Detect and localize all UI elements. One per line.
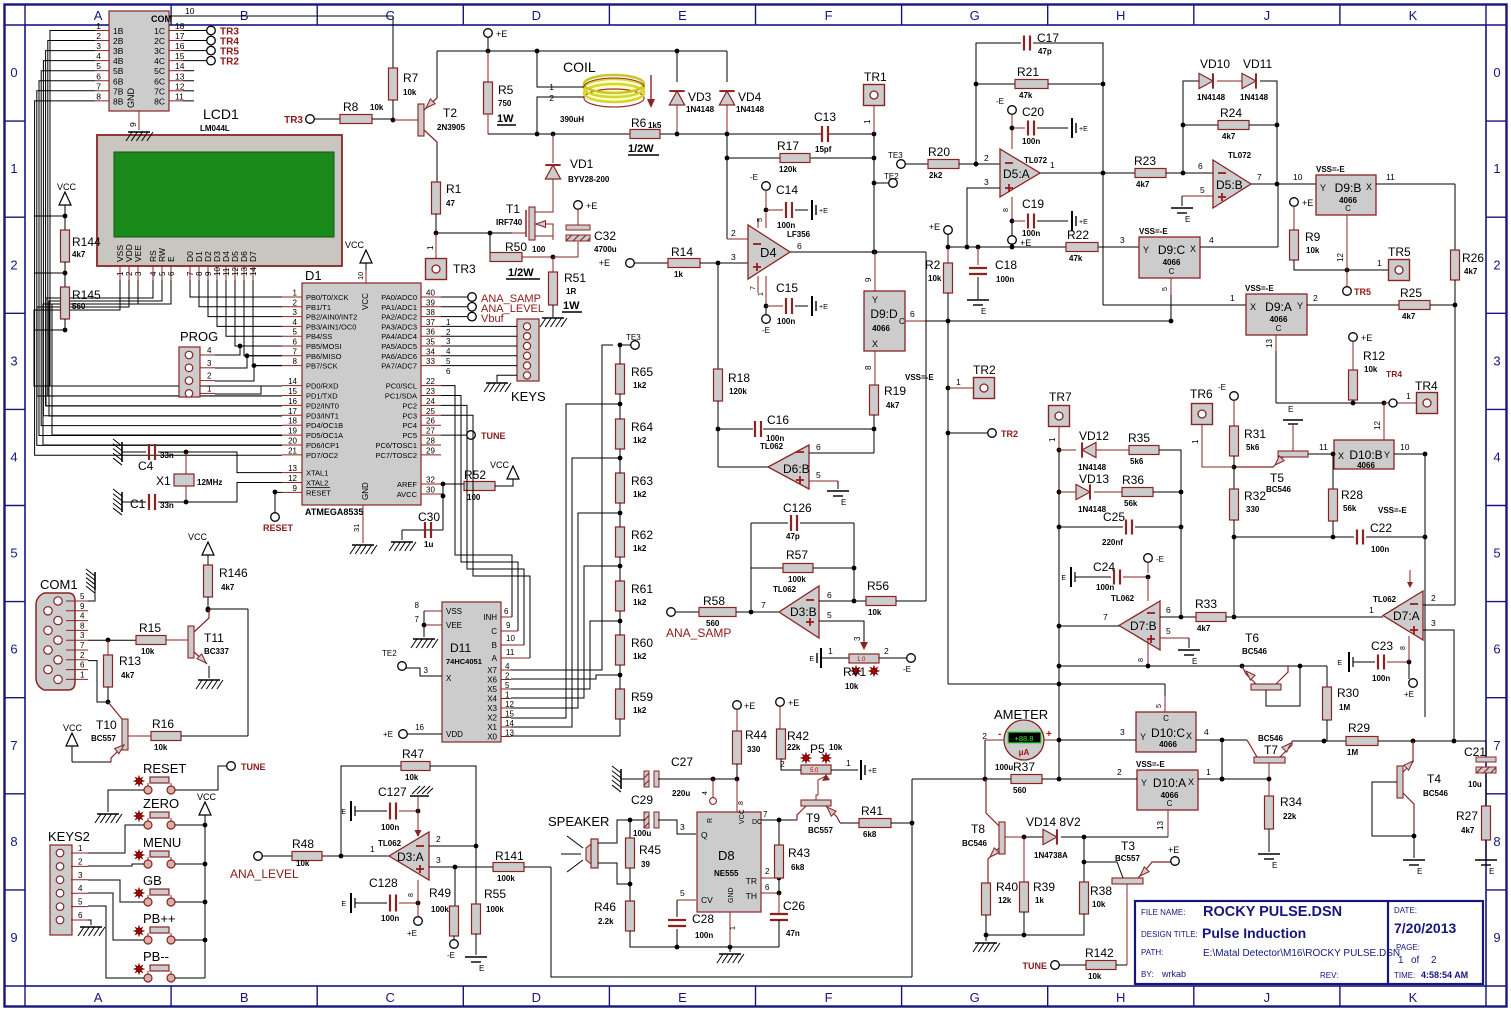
svg-text:TR2: TR2	[1001, 429, 1018, 439]
svg-text:PD3/INT1: PD3/INT1	[306, 411, 339, 420]
wire ladder top	[619, 345, 621, 364]
svg-text:4k7: 4k7	[1461, 826, 1475, 835]
svg-text:R15: R15	[139, 621, 161, 635]
svg-text:2: 2	[505, 672, 510, 681]
diode VD4 1N4148	[719, 91, 734, 105]
svg-text:VD12: VD12	[1079, 429, 1109, 443]
wire keys2 p5	[88, 906, 144, 978]
svg-text:R41: R41	[861, 804, 883, 818]
svg-text:1: 1	[370, 844, 375, 854]
op-amp D5:B TL072	[1213, 160, 1251, 208]
svg-text:E: E	[1489, 867, 1494, 876]
svg-text:D3:A: D3:A	[397, 850, 424, 864]
svg-text:E: E	[166, 256, 176, 262]
svg-text:C: C	[1169, 267, 1175, 276]
svg-text:2: 2	[765, 867, 770, 876]
svg-text:E:\Matal Detector\M16\ROCKY PU: E:\Matal Detector\M16\ROCKY PULSE.DSN	[1203, 948, 1400, 959]
svg-text:+E: +E	[383, 730, 393, 739]
wire T10 base	[128, 735, 151, 737]
svg-text:D8: D8	[718, 848, 735, 863]
svg-text:VDD: VDD	[446, 730, 463, 739]
svg-text:+: +	[1046, 729, 1052, 740]
svg-text:15: 15	[288, 387, 297, 396]
svg-text:C: C	[1276, 324, 1282, 333]
svg-text:Y: Y	[1320, 183, 1326, 193]
capacitor C13	[821, 126, 823, 142]
svg-text:23: 23	[426, 387, 435, 396]
svg-text:6k8: 6k8	[863, 830, 877, 839]
svg-text:R57: R57	[786, 548, 808, 562]
svg-text:R23: R23	[1134, 154, 1156, 168]
svg-text:VSS=-E: VSS=-E	[1378, 506, 1407, 515]
resistor R141	[455, 866, 493, 868]
wire D5A pin3	[967, 188, 1000, 247]
svg-text:10k: 10k	[1306, 246, 1320, 255]
capacitor C4	[121, 442, 123, 462]
svg-text:8: 8	[80, 621, 85, 630]
svg-text:10: 10	[356, 272, 365, 280]
diode VD3 1N4148	[669, 91, 684, 105]
svg-text:TR2: TR2	[973, 363, 996, 377]
svg-text:6: 6	[10, 642, 17, 657]
svg-text:INH: INH	[483, 613, 497, 622]
svg-text:100k: 100k	[431, 905, 449, 914]
svg-text:XTAL2: XTAL2	[306, 479, 328, 488]
wire R146 node	[207, 597, 209, 609]
svg-text:Q: Q	[701, 830, 708, 840]
svg-text:TIME:: TIME:	[1394, 971, 1415, 980]
IC D2 ULN2803	[109, 11, 169, 111]
svg-text:6: 6	[1198, 161, 1203, 171]
svg-text:1N4738A: 1N4738A	[1034, 851, 1068, 860]
resistor R17	[780, 154, 810, 163]
svg-text:+E: +E	[819, 304, 828, 311]
wire D7B pin7	[1059, 625, 1119, 627]
svg-text:22k: 22k	[787, 743, 801, 752]
svg-text:Y: Y	[872, 295, 878, 305]
svg-text:PB5/MOSI: PB5/MOSI	[306, 342, 341, 351]
resistor R64	[616, 419, 625, 449]
svg-text:2: 2	[10, 257, 17, 272]
svg-text:NE555: NE555	[714, 869, 739, 878]
svg-text:R49: R49	[429, 886, 451, 900]
svg-text:7: 7	[96, 81, 101, 91]
svg-text:TL072: TL072	[1024, 156, 1048, 165]
svg-text:9: 9	[204, 271, 213, 276]
svg-text:5C: 5C	[154, 66, 165, 76]
svg-text:R45: R45	[639, 843, 661, 857]
svg-text:2: 2	[125, 271, 134, 276]
capacitor C19	[1012, 220, 1025, 222]
wire T6 rail	[1059, 665, 1327, 667]
svg-text:C128: C128	[369, 876, 398, 890]
svg-text:Vbuf: Vbuf	[481, 313, 505, 325]
svg-text:40: 40	[426, 289, 435, 298]
IC D8 NE555	[697, 812, 761, 912]
svg-text:1/2W: 1/2W	[508, 267, 534, 279]
svg-text:10k: 10k	[405, 773, 419, 782]
svg-text:9: 9	[1493, 930, 1500, 945]
svg-text:3: 3	[78, 871, 83, 880]
wire D2COM down to R7	[392, 16, 394, 68]
svg-text:6: 6	[1493, 642, 1500, 657]
svg-text:18: 18	[288, 417, 297, 426]
svg-text:X0: X0	[487, 733, 497, 742]
svg-text:560: 560	[706, 619, 720, 628]
svg-text:9: 9	[10, 930, 17, 945]
svg-text:R20: R20	[928, 145, 950, 159]
svg-text:6: 6	[96, 71, 101, 81]
svg-text:5B: 5B	[113, 66, 124, 76]
svg-text:5: 5	[816, 470, 821, 480]
svg-text:R48: R48	[292, 837, 314, 851]
svg-text:1u: 1u	[424, 540, 433, 549]
svg-text:PC4: PC4	[402, 421, 417, 430]
svg-text:RESET: RESET	[143, 761, 186, 776]
wire D3A pin3	[429, 866, 455, 868]
transistor T10 BC557	[122, 719, 128, 750]
svg-text:E: E	[1185, 215, 1190, 224]
svg-text:10: 10	[506, 634, 515, 643]
wire D7A pin2	[1423, 604, 1454, 606]
resistor R16	[151, 732, 181, 741]
svg-text:C20: C20	[1022, 105, 1044, 119]
svg-text:10k: 10k	[868, 608, 882, 617]
terminal ANA_SAMP net	[468, 293, 477, 302]
svg-text:9: 9	[506, 621, 511, 630]
svg-text:4k7: 4k7	[221, 583, 235, 592]
wire R21 risers	[975, 84, 977, 164]
svg-text:R63: R63	[631, 474, 653, 488]
svg-text:VEE: VEE	[446, 621, 462, 630]
svg-text:TR7: TR7	[1049, 390, 1072, 404]
svg-text:R5: R5	[498, 83, 514, 97]
resistor R19	[870, 385, 879, 415]
diode VD14 8V2	[1024, 836, 1046, 838]
svg-text:TR: TR	[746, 876, 757, 886]
wire D7B pin5 gnd	[1160, 637, 1189, 639]
svg-text:T1: T1	[506, 202, 520, 216]
svg-text:120k: 120k	[729, 387, 747, 396]
svg-text:R24: R24	[1220, 106, 1242, 120]
svg-text:+E: +E	[744, 701, 755, 711]
svg-text:47k: 47k	[1069, 254, 1083, 263]
capacitor C1	[121, 492, 123, 512]
svg-text:4k7: 4k7	[1402, 312, 1416, 321]
svg-text:20: 20	[288, 437, 297, 446]
wire VD4 riser	[726, 51, 728, 82]
svg-text:ZERO: ZERO	[143, 796, 179, 811]
svg-text:R21: R21	[1017, 65, 1039, 79]
svg-text:5: 5	[1162, 287, 1169, 291]
svg-text:C: C	[899, 317, 905, 326]
svg-text:0: 0	[1493, 65, 1500, 80]
svg-text:5: 5	[505, 681, 510, 690]
svg-text:3: 3	[680, 822, 685, 832]
svg-text:D5:A: D5:A	[1003, 167, 1030, 181]
resistor R58	[699, 608, 736, 617]
power +E D5A	[1011, 221, 1013, 235]
svg-text:TUNE: TUNE	[241, 762, 266, 772]
svg-text:C32: C32	[594, 229, 616, 243]
svg-text:X: X	[1366, 182, 1372, 192]
svg-text:-E: -E	[762, 326, 770, 335]
svg-text:D10:C: D10:C	[1151, 726, 1185, 740]
svg-text:100n: 100n	[1022, 137, 1040, 146]
svg-text:5: 5	[757, 218, 764, 222]
svg-text:8: 8	[408, 893, 415, 897]
resistor R13	[107, 640, 109, 655]
resistor R18	[717, 263, 719, 369]
svg-text:Y: Y	[1141, 778, 1147, 788]
svg-text:7: 7	[10, 738, 17, 753]
svg-text:+E: +E	[599, 258, 610, 268]
svg-text:7C: 7C	[154, 86, 165, 96]
wire D7A pin3	[1423, 630, 1454, 741]
wire C22 line	[1234, 536, 1354, 538]
svg-text:5: 5	[78, 898, 83, 907]
svg-text:X5: X5	[487, 685, 497, 694]
svg-text:11: 11	[175, 91, 184, 101]
wire D3A pin8	[417, 880, 419, 917]
wire keys2 p2	[88, 864, 144, 866]
svg-text:2N3905: 2N3905	[437, 123, 466, 132]
svg-text:-E: -E	[1156, 555, 1164, 564]
resistor R24	[1183, 124, 1218, 126]
svg-text:X: X	[1190, 244, 1196, 254]
svg-text:12k: 12k	[998, 896, 1012, 905]
svg-text:1M: 1M	[1347, 748, 1358, 757]
svg-text:47p: 47p	[1038, 47, 1052, 56]
ground C127 hatch	[417, 797, 419, 811]
svg-text:31: 31	[352, 524, 361, 532]
wire D9A pin13	[1275, 335, 1277, 351]
svg-text:E: E	[1192, 657, 1197, 666]
svg-text:VD3: VD3	[688, 90, 712, 104]
svg-text:KEYS2: KEYS2	[48, 829, 90, 844]
svg-text:TR4: TR4	[1415, 379, 1438, 393]
svg-text:7: 7	[761, 600, 766, 610]
svg-text:+E: +E	[1404, 690, 1414, 699]
svg-text:10k: 10k	[928, 274, 942, 283]
svg-text:TUNE: TUNE	[1023, 961, 1048, 971]
wire keys2 p6	[88, 920, 91, 925]
svg-text:3: 3	[134, 271, 143, 276]
wire TR1 vertical	[873, 134, 875, 183]
svg-text:FILE NAME:: FILE NAME:	[1141, 908, 1185, 917]
svg-text:PROG: PROG	[180, 329, 218, 344]
svg-text:F: F	[825, 8, 833, 23]
wire KEYS p4	[441, 355, 517, 357]
svg-text:PB7/SCK: PB7/SCK	[306, 362, 338, 371]
svg-text:100n: 100n	[695, 931, 713, 940]
svg-text:4k7: 4k7	[1197, 624, 1211, 633]
wire D5A out	[1040, 172, 1103, 174]
ground R51	[552, 305, 554, 317]
svg-text:COM1: COM1	[40, 577, 78, 592]
svg-text:+E: +E	[868, 768, 877, 775]
resistor R29	[1346, 737, 1378, 746]
svg-text:X: X	[1188, 777, 1194, 787]
svg-text:12MHz: 12MHz	[197, 478, 222, 487]
svg-text:wrkab: wrkab	[1161, 969, 1186, 979]
power -E C24	[1144, 554, 1153, 563]
svg-text:T4: T4	[1427, 772, 1441, 786]
svg-text:-E: -E	[1218, 383, 1226, 392]
svg-text:36: 36	[426, 328, 435, 337]
svg-text:1: 1	[863, 119, 872, 124]
svg-text:TE3: TE3	[888, 151, 903, 160]
svg-text:VSS=-E: VSS=-E	[1139, 227, 1168, 236]
svg-text:3: 3	[10, 353, 17, 368]
resistor R41	[840, 822, 859, 824]
svg-text:6: 6	[78, 911, 83, 920]
svg-text:R144: R144	[72, 235, 101, 249]
wire D9C X out	[1200, 246, 1278, 248]
svg-text:1W: 1W	[497, 113, 514, 125]
svg-text:2: 2	[984, 153, 989, 163]
svg-text:R18: R18	[728, 371, 750, 385]
svg-text:3: 3	[853, 636, 862, 641]
wire R59 bottom	[511, 719, 620, 736]
wire D7B pin8	[1147, 638, 1149, 666]
svg-text:K: K	[1409, 8, 1418, 23]
resistor R57	[750, 568, 752, 612]
svg-text:T8: T8	[971, 822, 985, 836]
svg-text:GND: GND	[728, 887, 735, 903]
svg-text:13: 13	[1265, 339, 1274, 348]
svg-text:39: 39	[641, 860, 650, 869]
resistor R28	[1332, 454, 1334, 489]
svg-text:8: 8	[415, 601, 420, 610]
resistor R62	[616, 527, 625, 557]
wire D8 pin8	[736, 779, 738, 812]
svg-text:D7:B: D7:B	[1130, 619, 1157, 633]
svg-text:T7: T7	[1264, 743, 1278, 757]
wire bus D2 inputs to D1	[50, 31, 282, 387]
svg-text:RESET: RESET	[263, 523, 294, 533]
svg-text:15: 15	[505, 710, 514, 719]
svg-text:12: 12	[175, 81, 185, 91]
svg-text:8: 8	[195, 271, 204, 276]
svg-text:12: 12	[1336, 253, 1345, 262]
svg-text:9: 9	[293, 484, 298, 493]
svg-text:C26: C26	[783, 899, 805, 913]
wire D11 INH	[501, 616, 512, 618]
svg-text:BC546: BC546	[1258, 734, 1283, 743]
svg-text:4066: 4066	[1163, 258, 1181, 267]
svg-text:PA0/ADC0: PA0/ADC0	[381, 293, 417, 302]
svg-text:R36: R36	[1122, 473, 1144, 487]
svg-text:T2: T2	[443, 106, 457, 120]
svg-text:2: 2	[1313, 293, 1318, 303]
svg-text:R55: R55	[484, 887, 506, 901]
svg-text:7: 7	[1257, 172, 1262, 182]
svg-text:16: 16	[415, 723, 424, 732]
svg-text:BC557: BC557	[1115, 854, 1140, 863]
resistor R5	[487, 51, 489, 82]
svg-text:4066: 4066	[872, 324, 890, 333]
svg-text:PA5/ADC5: PA5/ADC5	[381, 342, 417, 351]
svg-text:T6: T6	[1245, 631, 1259, 645]
svg-text:R61: R61	[631, 582, 653, 596]
terminal TR4	[183, 40, 207, 42]
potentiometer RV1	[820, 648, 822, 668]
svg-text:8: 8	[1400, 646, 1407, 650]
wire D11 B	[501, 644, 524, 646]
resistor R63	[616, 473, 625, 503]
svg-text:IRF740: IRF740	[496, 218, 523, 227]
svg-text:J: J	[1264, 8, 1271, 23]
svg-text:PB4/SS: PB4/SS	[306, 332, 332, 341]
svg-text:22k: 22k	[1283, 812, 1297, 821]
svg-text:Y: Y	[1384, 450, 1390, 460]
terminal TR3	[183, 30, 207, 32]
svg-text:5k6: 5k6	[1130, 457, 1144, 466]
wire D6B pin5 gnd	[809, 480, 838, 482]
svg-text:TUNE: TUNE	[481, 431, 506, 441]
svg-text:3: 3	[1120, 727, 1125, 737]
svg-text:R6: R6	[631, 116, 647, 130]
svg-text:1k2: 1k2	[633, 490, 647, 499]
svg-text:BC557: BC557	[808, 826, 833, 835]
svg-text:0: 0	[10, 65, 17, 80]
wire D3B pin5	[819, 621, 864, 648]
svg-text:4: 4	[207, 346, 212, 355]
svg-text:R51: R51	[564, 271, 586, 285]
svg-text:1: 1	[1050, 160, 1055, 170]
svg-text:TH: TH	[746, 891, 757, 901]
svg-text:56k: 56k	[1343, 504, 1357, 513]
svg-text:1k2: 1k2	[633, 544, 647, 553]
svg-text:X4: X4	[487, 695, 497, 704]
wire COM1 pin2 riser	[88, 661, 108, 702]
svg-text:VCC: VCC	[490, 460, 510, 470]
svg-text:220u: 220u	[672, 789, 690, 798]
svg-text:37: 37	[426, 318, 435, 327]
svg-text:E: E	[981, 307, 986, 316]
svg-text:VSS: VSS	[446, 607, 462, 616]
svg-text:2: 2	[293, 298, 298, 307]
power +E T3	[1171, 857, 1180, 866]
svg-text:-E: -E	[996, 97, 1004, 106]
wire D6B pin6	[809, 452, 874, 454]
wire KEYS p1	[441, 325, 517, 327]
svg-text:C18: C18	[995, 258, 1017, 272]
svg-text:G: G	[970, 990, 980, 1005]
svg-text:3: 3	[424, 666, 429, 675]
svg-text:R25: R25	[1400, 286, 1422, 300]
svg-text:4: 4	[96, 51, 101, 61]
svg-text:1.0: 1.0	[857, 657, 866, 663]
svg-text:1/2W: 1/2W	[628, 143, 654, 155]
svg-text:D1: D1	[305, 268, 322, 283]
svg-text:GND: GND	[126, 88, 136, 109]
wire D10A X out	[1198, 778, 1269, 780]
resistor R39	[1023, 837, 1025, 882]
svg-text:B: B	[240, 990, 249, 1005]
analog switch D10:B 4066	[1334, 440, 1394, 469]
svg-text:8: 8	[10, 834, 17, 849]
resistor R38	[1083, 837, 1085, 882]
resistor R49	[454, 867, 456, 906]
svg-text:PB2/AIN0/INT2: PB2/AIN0/INT2	[306, 313, 357, 322]
svg-text:8B: 8B	[113, 96, 124, 106]
svg-text:7: 7	[415, 615, 420, 624]
svg-text:R31: R31	[1244, 427, 1266, 441]
terminal TR5 net	[1343, 287, 1352, 296]
svg-text:R27: R27	[1456, 809, 1478, 823]
